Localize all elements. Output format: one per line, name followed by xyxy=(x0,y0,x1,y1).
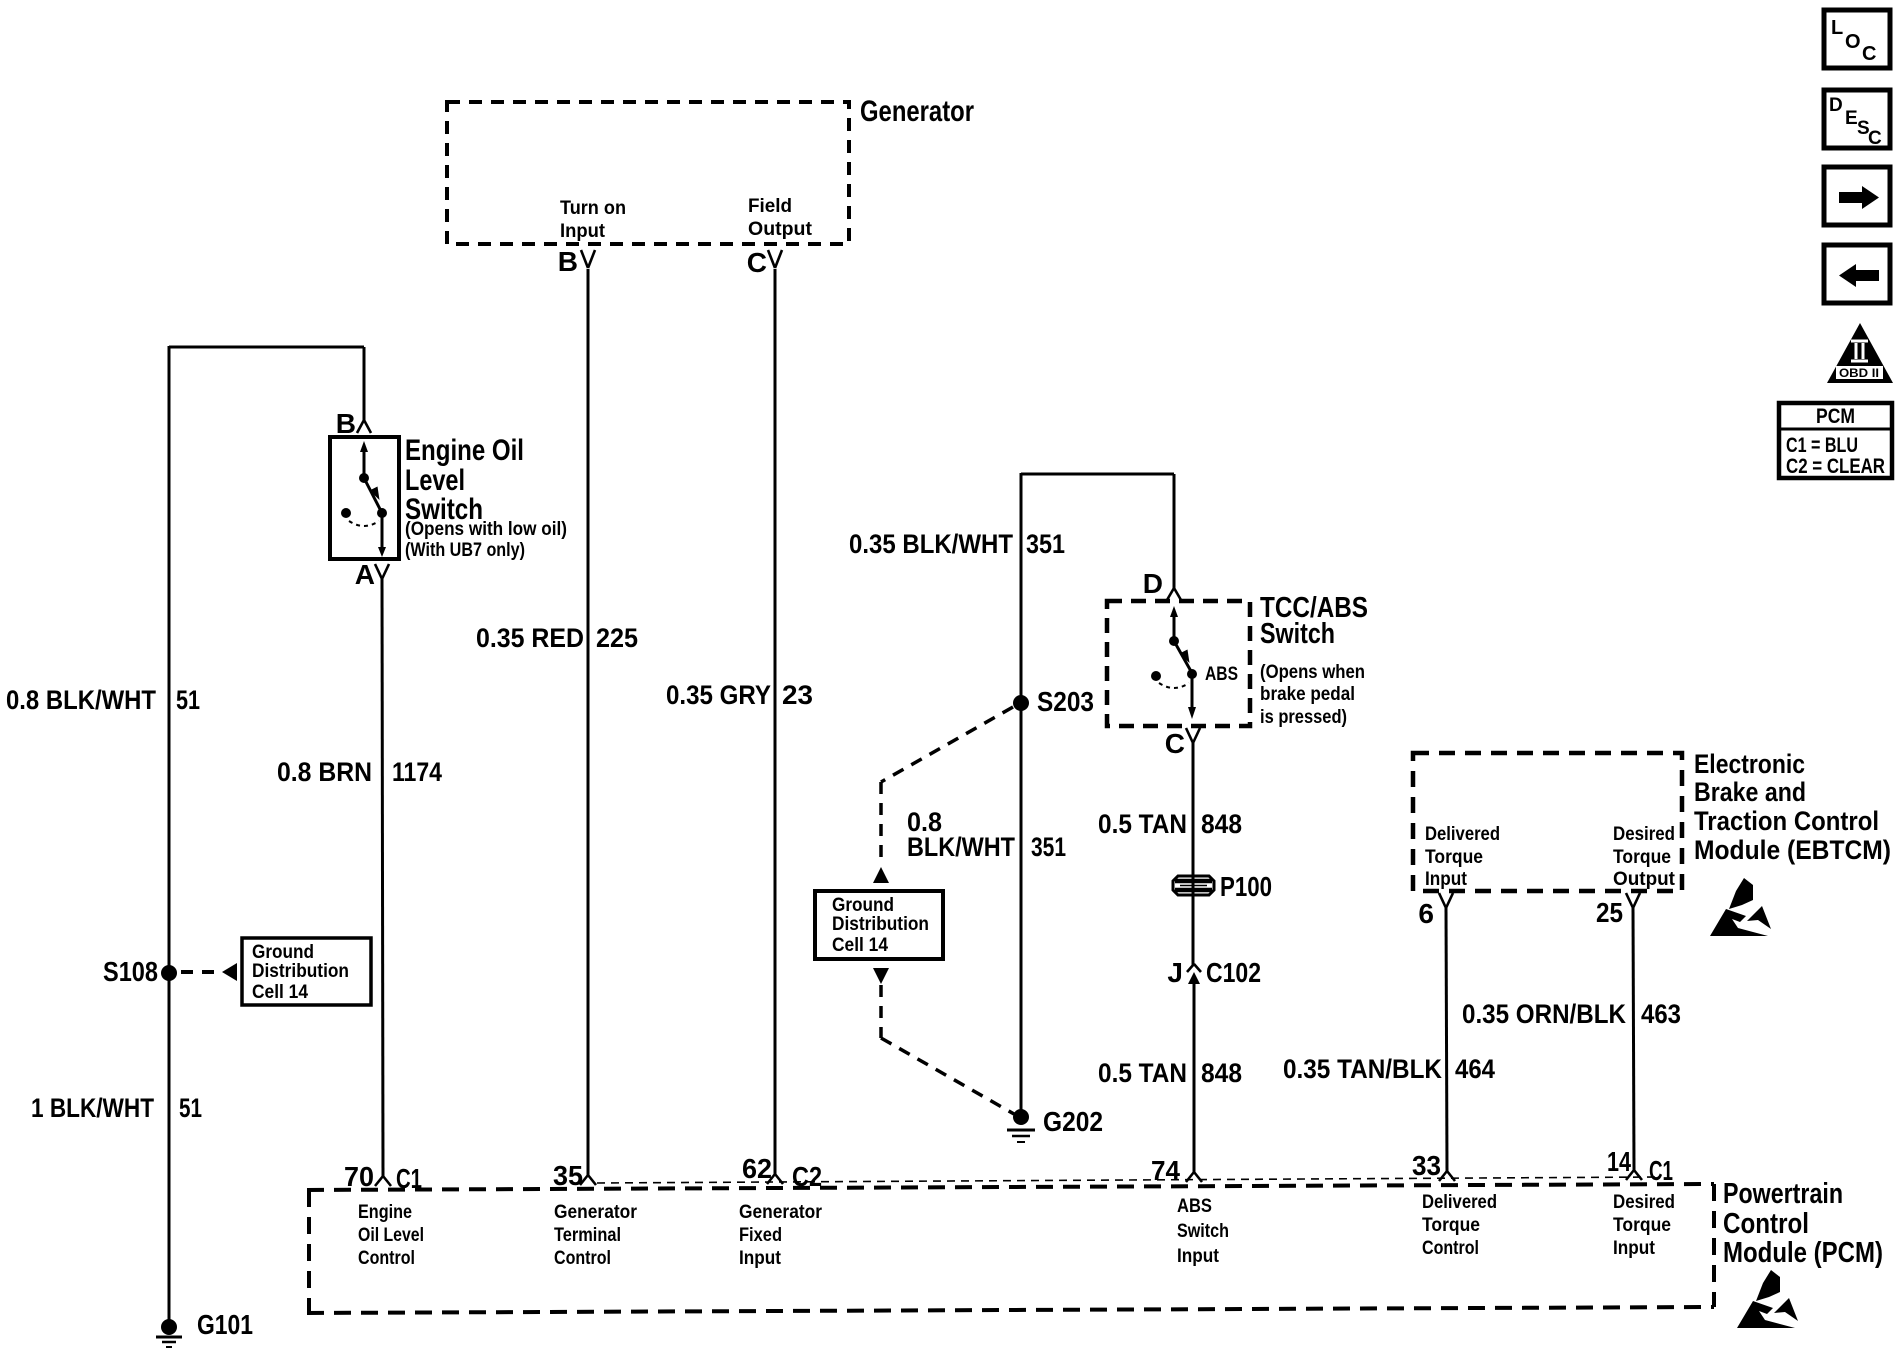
svg-text:Oil Level: Oil Level xyxy=(358,1225,424,1246)
svg-text:(Opens with low oil): (Opens with low oil) xyxy=(405,519,567,540)
connector P100 grommet symbol xyxy=(1173,876,1214,895)
svg-text:0.35 RED: 0.35 RED xyxy=(476,623,584,653)
PCM dashed box bottom edge xyxy=(307,1307,1714,1313)
connector C102 arrow xyxy=(1188,972,1200,984)
icon OBD II triangle xyxy=(1827,323,1893,383)
dashed reference link to G202 vertical xyxy=(879,985,883,1038)
TCC switch up arrow xyxy=(1173,612,1176,641)
svg-text:Switch: Switch xyxy=(1260,618,1335,650)
svg-text:Switch: Switch xyxy=(1177,1221,1229,1242)
connector C102 chevron xyxy=(1187,964,1194,972)
svg-text:Output: Output xyxy=(1613,869,1676,890)
svg-text:Module (EBTCM): Module (EBTCM) xyxy=(1694,835,1891,865)
svg-text:51: 51 xyxy=(179,1093,202,1123)
svg-text:23: 23 xyxy=(782,680,813,710)
node S203 xyxy=(1013,695,1029,711)
svg-text:Control: Control xyxy=(554,1248,611,1269)
svg-text:L: L xyxy=(1831,17,1843,39)
svg-text:Input: Input xyxy=(1425,869,1468,890)
svg-text:Desired: Desired xyxy=(1613,824,1675,845)
svg-text:A: A xyxy=(355,559,375,590)
svg-text:351: 351 xyxy=(1031,832,1066,862)
switch contact dot right xyxy=(377,508,387,518)
switch arm down arrow xyxy=(381,513,384,549)
svg-text:Engine Oil: Engine Oil xyxy=(405,434,524,467)
svg-text:0.35 BLK/WHT: 0.35 BLK/WHT xyxy=(849,529,1013,559)
TCC/ABS Switch dashed box xyxy=(1107,601,1250,726)
wire - 0.5 TAN 848 (to PCM 74) xyxy=(1192,743,1195,966)
EBTCM dashed box xyxy=(1413,753,1682,891)
TCC switch contact dot (ABS) xyxy=(1187,669,1197,679)
svg-text:Output: Output xyxy=(748,219,813,240)
dashed reference link to G202 diagonal xyxy=(881,1038,1014,1114)
node S108 xyxy=(161,965,177,981)
PCM dashed box right edge xyxy=(1712,1184,1716,1307)
Ground Distribution Cell 14 box (middle) xyxy=(815,891,943,959)
wire - top horizontal from left trunk to Engine Oil Level Switch xyxy=(169,346,364,349)
svg-text:S203: S203 xyxy=(1037,686,1094,717)
svg-text:0.35 TAN/BLK: 0.35 TAN/BLK xyxy=(1283,1054,1442,1084)
svg-text:Cell 14: Cell 14 xyxy=(252,982,308,1003)
svg-text:ABS: ABS xyxy=(1205,664,1238,685)
svg-text:62: 62 xyxy=(742,1153,772,1184)
reference arrow up (to Ground Distribution) xyxy=(873,867,889,883)
svg-text:ABS: ABS xyxy=(1177,1196,1212,1217)
svg-text:PCM: PCM xyxy=(1816,405,1855,428)
dashed reference link S203 diagonal xyxy=(881,707,1013,782)
svg-text:Distribution: Distribution xyxy=(832,914,929,935)
svg-text:351: 351 xyxy=(1026,529,1065,559)
svg-text:Powertrain: Powertrain xyxy=(1723,1178,1843,1210)
svg-text:BLK/WHT: BLK/WHT xyxy=(907,832,1015,862)
svg-text:brake pedal: brake pedal xyxy=(1260,684,1355,705)
svg-text:35: 35 xyxy=(553,1160,583,1191)
svg-text:Distribution: Distribution xyxy=(252,961,349,982)
switch blade diagonal xyxy=(364,478,382,513)
svg-text:Delivered: Delivered xyxy=(1422,1192,1497,1213)
svg-text:Desired: Desired xyxy=(1613,1192,1675,1213)
svg-text:P100: P100 xyxy=(1220,871,1272,902)
svg-text:0.5 TAN: 0.5 TAN xyxy=(1098,1058,1187,1088)
PCM dashed box left edge xyxy=(307,1190,311,1313)
svg-text:Input: Input xyxy=(1177,1246,1220,1267)
svg-text:Torque: Torque xyxy=(1425,847,1483,868)
dashed reference link S203 vertical xyxy=(879,782,883,866)
Engine Oil Level Switch box xyxy=(330,437,399,559)
icon DESC box xyxy=(1824,90,1890,148)
svg-text:Ground: Ground xyxy=(252,942,314,963)
TCC switch contact dot left xyxy=(1151,671,1161,681)
svg-text:(With UB7 only): (With UB7 only) xyxy=(405,540,525,561)
svg-text:0.5 TAN: 0.5 TAN xyxy=(1098,809,1187,839)
svg-text:C: C xyxy=(1868,128,1882,149)
svg-text:225: 225 xyxy=(596,623,638,653)
svg-text:Electronic: Electronic xyxy=(1694,749,1805,779)
svg-text:Module (PCM): Module (PCM) xyxy=(1723,1237,1883,1269)
svg-text:Control: Control xyxy=(1723,1208,1809,1240)
svg-text:C: C xyxy=(1165,728,1185,759)
svg-text:C1 = BLU: C1 = BLU xyxy=(1786,434,1858,457)
svg-text:Traction Control: Traction Control xyxy=(1694,806,1879,836)
svg-text:848: 848 xyxy=(1201,1058,1242,1088)
switch contact arm with up arrow xyxy=(363,446,366,478)
svg-text:Torque: Torque xyxy=(1613,1215,1671,1236)
TCC switch pivot dot xyxy=(1169,636,1179,646)
svg-text:Torque: Torque xyxy=(1422,1215,1480,1236)
svg-text:1174: 1174 xyxy=(392,757,442,787)
wire - horizontal 351 trunk top xyxy=(1021,473,1174,476)
svg-text:Generator: Generator xyxy=(860,95,974,128)
switch pivot dot upper xyxy=(359,473,369,483)
svg-text:51: 51 xyxy=(176,685,200,715)
svg-text:Terminal: Terminal xyxy=(554,1225,621,1246)
dashed reference link from S108 xyxy=(181,970,222,974)
Ground Distribution Cell 14 box (left) xyxy=(242,938,371,1005)
svg-text:S108: S108 xyxy=(103,956,158,987)
TCC switch blade diagonal xyxy=(1174,641,1192,673)
svg-text:Field: Field xyxy=(748,196,792,217)
icon forward arrow box xyxy=(1824,167,1890,225)
wire - drop to TCC/ABS pin D xyxy=(1173,474,1176,588)
icon PCM connector legend box xyxy=(1779,403,1892,478)
svg-text:C2 = CLEAR: C2 = CLEAR xyxy=(1786,455,1885,478)
svg-text:Generator: Generator xyxy=(739,1202,823,1223)
PCM dashed box top edge xyxy=(307,1184,1714,1190)
ground G101 xyxy=(161,1319,177,1335)
svg-text:25: 25 xyxy=(1596,897,1623,928)
wire - 351 trunk vertical (to G202) xyxy=(1020,473,1023,1112)
svg-text:Fixed: Fixed xyxy=(739,1225,782,1246)
svg-text:Input: Input xyxy=(560,221,606,242)
svg-text:C1: C1 xyxy=(1649,1155,1673,1186)
switch contact dot left xyxy=(341,508,351,518)
svg-text:Torque: Torque xyxy=(1613,847,1671,868)
ESD sensitivity symbol (PCM) xyxy=(1756,1270,1780,1301)
wire - 0.8 BRN 1174 vertical (A to PCM pin 70) xyxy=(382,579,383,1176)
svg-text:Brake and: Brake and xyxy=(1694,777,1806,807)
svg-text:0.8 BLK/WHT: 0.8 BLK/WHT xyxy=(6,685,156,715)
wire - 0.35 GRY 23 (Generator C to PCM 62) xyxy=(774,269,777,1174)
ESD sensitivity symbol (EBTCM) xyxy=(1729,878,1753,909)
svg-text:848: 848 xyxy=(1201,809,1242,839)
svg-text:Control: Control xyxy=(358,1248,415,1269)
svg-text:C102: C102 xyxy=(1206,957,1261,988)
icon back arrow box xyxy=(1824,245,1890,303)
svg-text:Delivered: Delivered xyxy=(1425,824,1500,845)
wire - drop to switch pin B xyxy=(363,347,366,420)
svg-text:G202: G202 xyxy=(1043,1106,1103,1137)
svg-text:463: 463 xyxy=(1641,999,1681,1029)
svg-text:OBD II: OBD II xyxy=(1839,366,1879,380)
TCC switch travel dashed arc xyxy=(1159,683,1189,688)
svg-text:Generator: Generator xyxy=(554,1202,638,1223)
svg-text:D: D xyxy=(1143,568,1163,599)
svg-text:Input: Input xyxy=(739,1248,782,1269)
svg-text:C: C xyxy=(1862,43,1876,65)
svg-text:0.8 BRN: 0.8 BRN xyxy=(277,757,372,787)
svg-text:J: J xyxy=(1167,957,1183,988)
svg-text:Control: Control xyxy=(1422,1238,1479,1259)
svg-text:B: B xyxy=(558,246,578,277)
svg-text:1 BLK/WHT: 1 BLK/WHT xyxy=(31,1093,154,1123)
svg-text:B: B xyxy=(336,408,356,439)
svg-text:(Opens when: (Opens when xyxy=(1260,662,1365,683)
svg-text:33: 33 xyxy=(1412,1150,1441,1181)
svg-text:74: 74 xyxy=(1151,1155,1180,1186)
svg-text:Turn on: Turn on xyxy=(560,198,626,219)
svg-text:is pressed): is pressed) xyxy=(1260,707,1347,728)
switch travel dashed arc xyxy=(349,521,379,526)
reference arrow down (from Ground Distribution) xyxy=(873,968,889,984)
svg-text:14: 14 xyxy=(1607,1146,1631,1177)
TCC switch down arrow xyxy=(1191,674,1194,709)
svg-text:0.35 ORN/BLK: 0.35 ORN/BLK xyxy=(1462,999,1626,1029)
svg-text:O: O xyxy=(1845,31,1861,53)
icon LOC box xyxy=(1824,10,1890,68)
svg-text:6: 6 xyxy=(1418,898,1434,929)
svg-text:G101: G101 xyxy=(197,1309,253,1340)
svg-text:Ground: Ground xyxy=(832,895,894,916)
svg-text:C: C xyxy=(747,247,767,278)
svg-text:Cell 14: Cell 14 xyxy=(832,935,888,956)
svg-text:Input: Input xyxy=(1613,1238,1656,1259)
svg-text:70: 70 xyxy=(344,1161,374,1192)
svg-text:Engine: Engine xyxy=(358,1202,412,1223)
ground G202 xyxy=(1013,1109,1029,1125)
PCM connector edge (thin scan line) xyxy=(597,1177,1658,1183)
svg-text:464: 464 xyxy=(1455,1054,1495,1084)
wire - left trunk vertical (BLK/WHT 51) xyxy=(168,346,171,1321)
Generator component dashed box xyxy=(447,102,849,244)
svg-text:E: E xyxy=(1845,108,1858,129)
svg-text:0.35 GRY: 0.35 GRY xyxy=(666,680,771,710)
svg-text:D: D xyxy=(1829,95,1843,116)
wire - 0.35 RED 225 (Generator B to PCM 35) xyxy=(587,269,590,1175)
wire - 0.35 TAN/BLK 464 (EBTCM 6 to PCM 33) xyxy=(1446,908,1447,1171)
wire - 0.35 ORN/BLK 463 (EBTCM 25 to PCM 14) xyxy=(1633,908,1634,1170)
